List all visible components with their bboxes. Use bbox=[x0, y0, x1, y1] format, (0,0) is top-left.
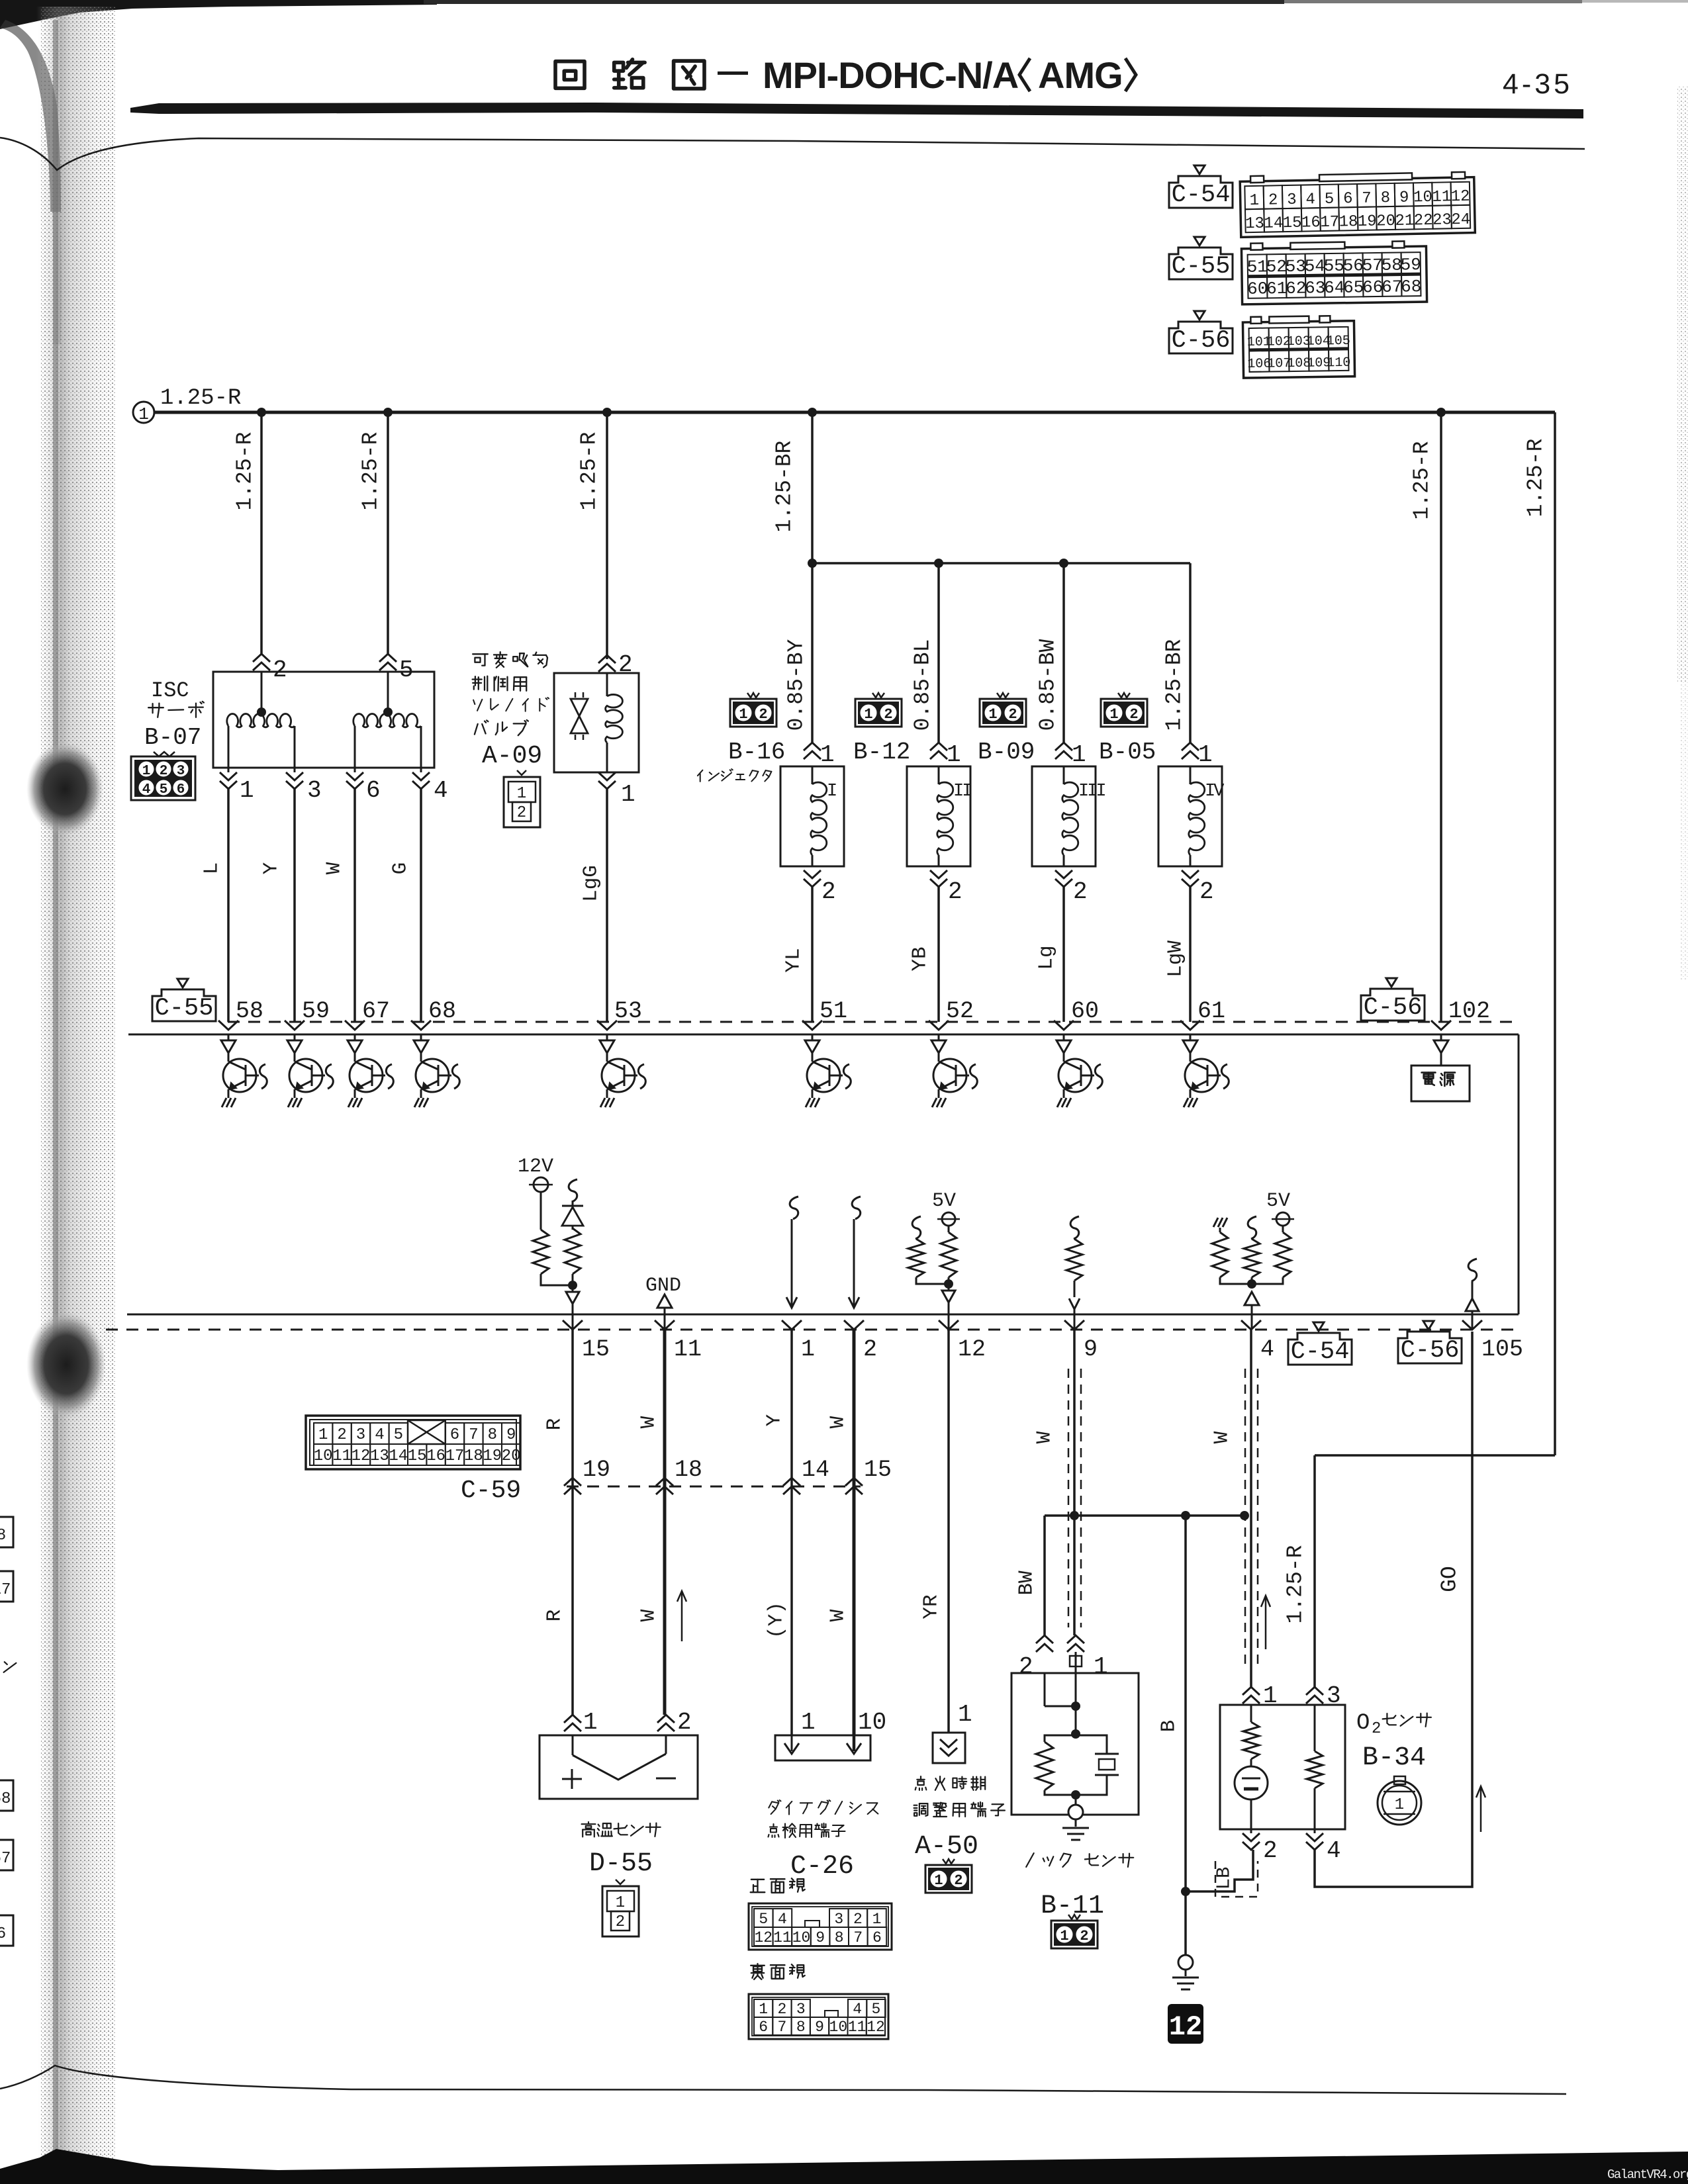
svg-text:57: 57 bbox=[1362, 255, 1383, 275]
svg-text:18: 18 bbox=[1338, 213, 1358, 232]
svg-text:2: 2 bbox=[1129, 706, 1138, 723]
svg-text:1: 1 bbox=[801, 1709, 816, 1736]
svg-text:4-35: 4-35 bbox=[1503, 68, 1573, 100]
svg-text:1: 1 bbox=[318, 1426, 328, 1444]
C-26 pin10 arrow bbox=[853, 1735, 856, 1751]
svg-text:1: 1 bbox=[988, 706, 997, 723]
shield dashed pair around pin 9 wire bbox=[1068, 1369, 1070, 1627]
power supply block pin 102 bbox=[1440, 1034, 1442, 1040]
svg-text:2: 2 bbox=[616, 1913, 625, 1931]
svg-text:2: 2 bbox=[954, 1872, 962, 1889]
left edge stray glyph bbox=[4, 1662, 17, 1672]
knock junction horizontal wire bbox=[1045, 1514, 1248, 1517]
svg-text:5: 5 bbox=[399, 657, 414, 684]
resistor pin 9 bbox=[1066, 1239, 1082, 1281]
svg-text:17: 17 bbox=[0, 1581, 11, 1599]
svg-text:C-56: C-56 bbox=[1364, 994, 1423, 1022]
svg-text:2: 2 bbox=[1073, 878, 1088, 905]
svg-text:1: 1 bbox=[759, 2001, 768, 2018]
wire injector B-16 to ECU pin 51 bbox=[811, 887, 814, 1022]
svg-text:D-55: D-55 bbox=[589, 1849, 653, 1879]
svg-text:51: 51 bbox=[820, 998, 847, 1024]
O2 cell symbol bbox=[1250, 1759, 1252, 1767]
ISC pin 6 chevrons bbox=[354, 768, 356, 772]
svg-text:C-56: C-56 bbox=[1401, 1337, 1460, 1365]
svg-text:67: 67 bbox=[362, 998, 390, 1024]
wire ISC pin6 to ECU pin 67, label W bbox=[353, 789, 356, 1022]
page curvature thin line bbox=[0, 138, 1585, 170]
svg-text:1: 1 bbox=[616, 1894, 625, 1912]
connector C-59 pin grid bbox=[306, 1416, 521, 1469]
svg-text:1: 1 bbox=[947, 741, 961, 768]
svg-text:W: W bbox=[827, 1609, 850, 1621]
ECU pin 60 chevron bbox=[1054, 1021, 1074, 1030]
knock sensor pin 2 chevrons bbox=[1036, 1635, 1053, 1643]
svg-text:7: 7 bbox=[853, 1929, 863, 1946]
injector B-16 pin 1 chevrons bbox=[804, 743, 821, 751]
ECU internal power supply box bbox=[1411, 1066, 1470, 1101]
C-26 rear view grid bbox=[749, 1994, 888, 2039]
svg-text:59: 59 bbox=[302, 998, 330, 1024]
A-50 labels bbox=[915, 1776, 927, 1790]
diode branch squiggle bbox=[569, 1179, 577, 1202]
svg-text:16: 16 bbox=[1301, 214, 1321, 232]
svg-text:7: 7 bbox=[1362, 190, 1372, 208]
ECU pin 1 chevron bottom bbox=[782, 1320, 802, 1330]
injector connector icon B-09 bbox=[980, 693, 1026, 727]
injector B-09 box bbox=[1032, 766, 1096, 866]
knock sensor connector icon B-11 bbox=[1051, 1915, 1098, 1948]
injector connector icon B-12 bbox=[855, 693, 902, 727]
shield ferrule on knock pin1 wire bbox=[1075, 1652, 1077, 1673]
svg-text:17: 17 bbox=[1320, 214, 1339, 232]
O2 sensor connector icon B-34 round bbox=[1378, 1776, 1421, 1825]
C-59 pin 19 chevrons bbox=[564, 1478, 581, 1486]
ISC pin 3 chevrons bbox=[294, 768, 296, 772]
svg-text:3: 3 bbox=[307, 777, 322, 804]
svg-text:24: 24 bbox=[1451, 211, 1470, 230]
svg-text:4: 4 bbox=[853, 2001, 862, 2018]
svg-text:0.85-BY: 0.85-BY bbox=[784, 639, 809, 731]
O2 pin 4 chevrons bbox=[1306, 1833, 1323, 1841]
wire ECU4 down (W in shield) bbox=[1250, 1330, 1252, 1687]
svg-text:2: 2 bbox=[884, 706, 892, 723]
transistor driver at x=1227 bbox=[805, 1034, 851, 1107]
svg-text:1.25-BR: 1.25-BR bbox=[773, 441, 797, 533]
svg-text:1: 1 bbox=[1072, 741, 1086, 768]
ECU pin 11 chevron bottom bbox=[655, 1320, 675, 1330]
wire ISC pin1 to ECU pin 58, label L bbox=[227, 789, 230, 1022]
D-55 pin 1 chevrons bbox=[564, 1715, 581, 1723]
svg-text:22: 22 bbox=[1414, 212, 1433, 230]
title dash bbox=[718, 71, 748, 75]
svg-text:5: 5 bbox=[1325, 191, 1335, 208]
svg-text:5: 5 bbox=[872, 2001, 881, 2018]
ECU pin 105 chevron bottom bbox=[1462, 1320, 1482, 1330]
svg-text:1: 1 bbox=[1094, 1653, 1108, 1680]
svg-text:I: I bbox=[827, 782, 836, 801]
svg-text:1: 1 bbox=[872, 1911, 882, 1928]
svg-text:LB: LB bbox=[1213, 1867, 1235, 1890]
D-55 connector icon bbox=[602, 1880, 639, 1936]
svg-text:52: 52 bbox=[946, 998, 974, 1024]
svg-text:C-59: C-59 bbox=[461, 1477, 521, 1505]
svg-text:10: 10 bbox=[829, 2019, 848, 2036]
page scan: top edge shadow bbox=[0, 0, 437, 29]
svg-text:5: 5 bbox=[759, 1911, 768, 1928]
output marker to pin 15 bbox=[572, 1285, 574, 1292]
connector C-55 pin grid 51-68 bbox=[1241, 241, 1427, 304]
svg-text:YR: YR bbox=[920, 1594, 943, 1619]
svg-text:B-05: B-05 bbox=[1099, 739, 1156, 766]
junction dot pin15 network bbox=[568, 1281, 577, 1290]
knock internal piezo capacitor bbox=[1076, 1735, 1107, 1754]
C-26 pin1 arrow bbox=[791, 1735, 793, 1751]
wire feed to injector B-12 bbox=[937, 563, 940, 743]
svg-text:1: 1 bbox=[739, 706, 747, 723]
svg-text:7: 7 bbox=[778, 2019, 787, 2036]
wire B from junction down to ground bbox=[1184, 1516, 1187, 1891]
junction dot B to O2 return bbox=[1181, 1887, 1190, 1896]
svg-text:3: 3 bbox=[1287, 191, 1297, 209]
svg-text:0.85-BW: 0.85-BW bbox=[1036, 639, 1060, 731]
D-55 sensor box bbox=[539, 1735, 698, 1799]
svg-text:8: 8 bbox=[0, 1527, 6, 1545]
svg-text:2: 2 bbox=[1372, 1720, 1381, 1738]
svg-text:9: 9 bbox=[816, 1929, 825, 1946]
svg-text:20: 20 bbox=[1376, 212, 1395, 231]
binding hole blob lower bbox=[26, 1312, 106, 1418]
svg-text:YB: YB bbox=[909, 946, 932, 971]
svg-text:53: 53 bbox=[1286, 257, 1307, 277]
junction dot pin4 network bbox=[1247, 1279, 1256, 1289]
top-left page curl shadow bbox=[0, 20, 61, 212]
ECU top boundary solid line bbox=[128, 1034, 1519, 1036]
svg-text:15: 15 bbox=[408, 1447, 427, 1465]
svg-text:14: 14 bbox=[389, 1447, 408, 1465]
svg-text:6: 6 bbox=[177, 782, 185, 797]
svg-text:Y: Y bbox=[763, 1414, 786, 1426]
wire ECU12 to A-50 (YR) bbox=[947, 1330, 950, 1733]
svg-text:2: 2 bbox=[853, 1911, 863, 1928]
direction arrow on pin4 wire bbox=[1265, 1596, 1267, 1649]
svg-text:YL: YL bbox=[782, 948, 806, 972]
resistor left branch pin12 bbox=[908, 1239, 924, 1277]
svg-text:GO: GO bbox=[1438, 1566, 1462, 1592]
svg-text:2: 2 bbox=[1019, 1653, 1033, 1680]
ECU pin 67 chevron bbox=[345, 1021, 365, 1030]
svg-text:1.25-R: 1.25-R bbox=[1284, 1545, 1308, 1624]
svg-text:GalantVR4.org: GalantVR4.org bbox=[1607, 2167, 1688, 2182]
injector B-16 pin 2 chevrons bbox=[804, 870, 821, 878]
svg-text:4: 4 bbox=[434, 777, 448, 804]
C-26 terminal box bbox=[775, 1735, 870, 1760]
C-59 crossed blank cell bbox=[408, 1420, 445, 1444]
svg-text:14: 14 bbox=[1264, 214, 1283, 233]
svg-text:1.25-R: 1.25-R bbox=[233, 432, 258, 511]
svg-text:15: 15 bbox=[864, 1457, 892, 1483]
svg-text:6: 6 bbox=[450, 1426, 459, 1444]
svg-text:W: W bbox=[323, 862, 346, 874]
knock sensor earth ground bbox=[1075, 1819, 1077, 1827]
svg-text:3: 3 bbox=[834, 1911, 843, 1928]
svg-text:58: 58 bbox=[0, 1790, 11, 1808]
injector B-09 pin 2 chevrons bbox=[1055, 870, 1072, 878]
wire ECU2 to C-26 pin10 (W) thick bbox=[853, 1330, 856, 1735]
ECU pin 53 chevron bbox=[597, 1021, 617, 1030]
svg-text:9: 9 bbox=[1084, 1336, 1098, 1363]
plus mark bbox=[562, 1778, 582, 1780]
svg-text:19: 19 bbox=[483, 1447, 502, 1465]
knock internal wiring bbox=[1044, 1673, 1046, 1706]
transistor driver at x=536 bbox=[348, 1034, 393, 1107]
right page edge speckle bbox=[1677, 86, 1688, 682]
svg-text:11: 11 bbox=[332, 1447, 352, 1465]
ground circle and earth symbol for B net bbox=[1184, 1891, 1187, 1955]
svg-text:105: 105 bbox=[1327, 334, 1350, 349]
ISC coil 1 bbox=[261, 672, 263, 712]
svg-text:12: 12 bbox=[1169, 2011, 1202, 2043]
svg-text:4: 4 bbox=[375, 1426, 384, 1444]
svg-text:Y: Y bbox=[260, 862, 283, 874]
wire GO from O2 pin4 to ECU pin 105 bbox=[1315, 1332, 1472, 1887]
left edge partial connector boxes from facing page bbox=[0, 1517, 13, 1547]
A-50 terminal box bbox=[933, 1733, 965, 1763]
svg-text:R: R bbox=[543, 1418, 567, 1431]
transistor driver at x=636 bbox=[414, 1034, 459, 1107]
svg-text:B-12: B-12 bbox=[853, 739, 910, 766]
svg-text:B-34: B-34 bbox=[1362, 1743, 1426, 1773]
svg-text:13: 13 bbox=[1245, 215, 1264, 234]
svg-text:A-50: A-50 bbox=[915, 1832, 978, 1862]
svg-text:II: II bbox=[953, 782, 971, 801]
svg-text:60: 60 bbox=[1247, 279, 1268, 298]
svg-text:2: 2 bbox=[677, 1709, 692, 1736]
svg-text:60: 60 bbox=[1071, 998, 1099, 1024]
connector label C-55 bbox=[1169, 237, 1233, 281]
svg-text:10: 10 bbox=[1413, 189, 1432, 207]
svg-text:23: 23 bbox=[1432, 211, 1452, 230]
svg-text:11: 11 bbox=[848, 2019, 867, 2036]
injector B-16 box bbox=[780, 766, 844, 866]
svg-text:53: 53 bbox=[614, 998, 642, 1024]
svg-text:4: 4 bbox=[778, 1911, 787, 1928]
transistor driver at x=1418 bbox=[931, 1034, 977, 1107]
signal stub pin 1 (C-26 diag out) bbox=[790, 1197, 798, 1219]
squiggle pin 9 pullup bbox=[1070, 1216, 1079, 1239]
resistor pullup left of pin 15 bbox=[533, 1230, 549, 1274]
bottom page curve line bbox=[0, 2066, 1566, 2094]
wire ECU9 down (W in shield) bbox=[1073, 1330, 1076, 1516]
D-55 thermo element bbox=[572, 1735, 574, 1755]
svg-text:AMG: AMG bbox=[1038, 54, 1123, 96]
injector B-16 coil bbox=[812, 766, 814, 784]
connector label C-56 bbox=[1398, 1321, 1462, 1365]
svg-text:5V: 5V bbox=[1266, 1190, 1290, 1212]
svg-text:19: 19 bbox=[1358, 212, 1377, 231]
svg-text:5V: 5V bbox=[932, 1190, 956, 1212]
wire from O2 pin2 to B net bbox=[1186, 1850, 1253, 1891]
C-59 pin 18 chevrons bbox=[656, 1478, 673, 1486]
ECU pin 15 chevron bottom bbox=[563, 1320, 583, 1330]
svg-text:G: G bbox=[389, 862, 412, 875]
svg-text:2: 2 bbox=[1268, 191, 1278, 209]
transistor driver at x=1798 bbox=[1183, 1034, 1229, 1107]
wire drop to ISC pin 5 bbox=[387, 412, 389, 655]
injector B-09 coil bbox=[1063, 766, 1065, 784]
svg-text:18: 18 bbox=[675, 1457, 702, 1483]
svg-text:68: 68 bbox=[1401, 277, 1422, 296]
svg-text:9: 9 bbox=[1399, 189, 1409, 206]
ECU pin 9 chevron bottom bbox=[1064, 1320, 1084, 1330]
svg-text:0.85-BL: 0.85-BL bbox=[911, 639, 935, 731]
svg-text:LgG: LgG bbox=[580, 865, 603, 902]
svg-text:4: 4 bbox=[1260, 1336, 1274, 1363]
ISC coil 2 bbox=[387, 672, 389, 712]
injector B-05 box bbox=[1158, 766, 1222, 866]
svg-text:65: 65 bbox=[1343, 277, 1364, 297]
ECU pin 51 chevron bbox=[802, 1021, 822, 1030]
ISC pin 1 chevrons bbox=[228, 768, 230, 772]
svg-text:1.25-R: 1.25-R bbox=[359, 432, 383, 511]
svg-text:2: 2 bbox=[618, 651, 633, 678]
svg-text:59: 59 bbox=[1401, 255, 1422, 275]
svg-text:1: 1 bbox=[801, 1336, 815, 1363]
svg-text:9: 9 bbox=[506, 1426, 516, 1444]
wire drop injector feed 1.25-BR bbox=[811, 412, 814, 563]
svg-text:W: W bbox=[827, 1416, 850, 1428]
svg-text:54: 54 bbox=[1305, 256, 1326, 276]
svg-text:2: 2 bbox=[160, 764, 168, 779]
svg-text:1: 1 bbox=[1109, 706, 1118, 723]
header thick rule bbox=[130, 103, 1583, 118]
injector B-12 box bbox=[907, 766, 970, 866]
injector B-05 pin 2 chevrons bbox=[1182, 870, 1199, 878]
ECU top boundary dashed connector line bbox=[228, 1021, 1519, 1023]
junction dots knock net bbox=[1070, 1511, 1079, 1520]
svg-text:1: 1 bbox=[934, 1872, 943, 1889]
svg-text:W: W bbox=[1211, 1431, 1234, 1443]
svg-text:6: 6 bbox=[366, 777, 381, 804]
svg-text:110: 110 bbox=[1327, 355, 1350, 371]
injector B-05 coil bbox=[1190, 766, 1192, 784]
A-09 component box bbox=[554, 673, 639, 772]
D-55 pin 2 chevrons bbox=[657, 1715, 675, 1723]
svg-text:1.25-R: 1.25-R bbox=[1410, 441, 1434, 520]
svg-text:C-54: C-54 bbox=[1172, 181, 1231, 209]
svg-text:11: 11 bbox=[674, 1336, 702, 1363]
transistor driver at x=445 bbox=[287, 1034, 333, 1107]
ISC servo pin 5 chevrons bbox=[379, 654, 397, 662]
ECU pin 59 chevron bbox=[285, 1021, 305, 1030]
svg-text:4: 4 bbox=[1305, 191, 1315, 208]
svg-text:1: 1 bbox=[240, 777, 254, 804]
svg-text:15: 15 bbox=[582, 1336, 610, 1363]
injector B-05 pin 1 chevrons bbox=[1182, 743, 1199, 751]
svg-text:MPI-DOHC-N/A: MPI-DOHC-N/A bbox=[763, 54, 1018, 96]
C-26 front view grid bbox=[749, 1903, 892, 1950]
svg-text:B-16: B-16 bbox=[728, 739, 785, 766]
svg-text:C-56: C-56 bbox=[1172, 327, 1231, 355]
ECU pin 12 chevron bottom bbox=[939, 1320, 959, 1330]
injector B-12 pin 2 chevrons bbox=[930, 870, 947, 878]
svg-text:5: 5 bbox=[160, 782, 168, 797]
svg-text:51: 51 bbox=[1247, 257, 1268, 277]
book binding shadow strip bbox=[36, 7, 117, 2177]
svg-text:1: 1 bbox=[958, 1701, 972, 1728]
svg-text:62: 62 bbox=[1286, 279, 1307, 298]
svg-text:ISC: ISC bbox=[151, 678, 189, 703]
svg-text:BW: BW bbox=[1015, 1570, 1039, 1596]
svg-text:3: 3 bbox=[796, 2001, 806, 2018]
connector C-56 pin grid 101-110 bbox=[1243, 316, 1354, 378]
ECU bottom boundary dashed connector line bbox=[106, 1329, 1519, 1331]
wire feed to injector B-09 bbox=[1062, 563, 1065, 743]
svg-text:1: 1 bbox=[1395, 1796, 1404, 1814]
svg-text:3: 3 bbox=[177, 764, 185, 779]
svg-text:4: 4 bbox=[1327, 1837, 1341, 1864]
svg-text:10: 10 bbox=[792, 1929, 811, 1946]
wire injector B-12 to ECU pin 52 bbox=[937, 887, 940, 1022]
angle bracket open bbox=[1019, 58, 1030, 91]
svg-text:11: 11 bbox=[773, 1929, 792, 1946]
diode bbox=[572, 1201, 574, 1207]
svg-text:58: 58 bbox=[236, 998, 263, 1024]
svg-text:R: R bbox=[543, 1610, 567, 1622]
wire A-09 pin1 to ECU pin 53, label LgG bbox=[606, 789, 608, 1022]
svg-text:67: 67 bbox=[1382, 277, 1403, 296]
svg-text:18: 18 bbox=[464, 1447, 483, 1465]
svg-text:8: 8 bbox=[1381, 189, 1391, 207]
svg-text:III: III bbox=[1078, 782, 1105, 801]
ISC servo connector icon B-07 6pin bbox=[131, 752, 195, 800]
resistor below diode bbox=[565, 1228, 581, 1274]
ECU pin 2 chevron bottom bbox=[844, 1320, 864, 1330]
svg-text:GND: GND bbox=[645, 1275, 681, 1297]
connector C-54 pin grid 1-24 bbox=[1240, 172, 1475, 238]
wire injector B-09 to ECU pin 60 bbox=[1062, 887, 1065, 1022]
ECU pin 102 chevron bbox=[1431, 1021, 1451, 1030]
svg-text:1: 1 bbox=[138, 404, 149, 424]
distribution junction dots bbox=[808, 559, 817, 568]
knock sensor pin 1 chevrons bbox=[1067, 1635, 1084, 1643]
svg-text:C-55: C-55 bbox=[155, 995, 214, 1023]
shield dashed pair around pin 4 wire bbox=[1244, 1369, 1246, 1664]
svg-text:O: O bbox=[1356, 1711, 1370, 1736]
svg-text:102: 102 bbox=[1448, 998, 1490, 1024]
svg-text:6: 6 bbox=[872, 1929, 882, 1946]
svg-text:1: 1 bbox=[1198, 741, 1213, 768]
resistor right branch pin12 bbox=[941, 1232, 957, 1277]
svg-text:9: 9 bbox=[815, 2019, 824, 2036]
transistor driver at x=345 bbox=[221, 1034, 267, 1107]
wire ISC pin3 to ECU pin 59, label Y bbox=[293, 789, 296, 1022]
svg-text:2: 2 bbox=[759, 706, 767, 723]
svg-text:12: 12 bbox=[1450, 188, 1470, 206]
wire ECU11 to D-55 pin2 (W) thick bbox=[663, 1330, 667, 1715]
minus mark bbox=[656, 1778, 676, 1780]
svg-text:58: 58 bbox=[1382, 255, 1403, 275]
ISC pin 4 chevrons bbox=[420, 768, 422, 772]
svg-text:5: 5 bbox=[394, 1426, 403, 1444]
svg-text:55: 55 bbox=[1324, 256, 1345, 276]
signal stub pin 2 bbox=[852, 1197, 861, 1219]
svg-text:2: 2 bbox=[821, 878, 836, 905]
svg-text:61: 61 bbox=[1266, 279, 1288, 298]
front view label bbox=[751, 1880, 765, 1892]
svg-text:6: 6 bbox=[1343, 190, 1353, 208]
svg-text:2: 2 bbox=[1263, 1837, 1278, 1864]
